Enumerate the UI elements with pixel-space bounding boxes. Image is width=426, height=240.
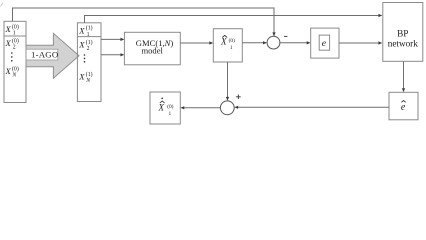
svg-text:X: X <box>78 72 85 82</box>
svg-text:(0): (0) <box>12 23 19 30</box>
wire X(1) to BP network <box>85 14 383 23</box>
svg-text:1: 1 <box>230 45 233 51</box>
wire X(1) to GMC input 2 <box>101 53 124 56</box>
wire GMC to X-hat box <box>180 41 213 44</box>
summing junction 1 <box>267 36 280 49</box>
svg-text:network: network <box>388 39 419 49</box>
svg-text:X: X <box>78 40 85 50</box>
svg-text:e: e <box>401 102 406 113</box>
svg-text:N: N <box>85 78 91 84</box>
wire e-hat to summing junction 2 <box>234 106 389 109</box>
BP network box <box>383 3 423 62</box>
svg-text:1: 1 <box>87 32 90 38</box>
svg-text:X: X <box>78 25 85 35</box>
svg-text:(1): (1) <box>86 71 93 78</box>
label X1(0) <box>5 23 19 36</box>
label XN(0) <box>5 65 19 78</box>
box X(0) separator line <box>4 35 26 37</box>
svg-text:(0): (0) <box>12 38 19 45</box>
wire X(1) to GMC input 1 <box>101 38 124 41</box>
svg-text:2: 2 <box>13 45 16 51</box>
svg-text:(1): (1) <box>86 39 93 46</box>
svg-text:(0): (0) <box>167 103 173 110</box>
output box X-hat-hat(0) <box>150 92 180 124</box>
wire junction 1 to e box <box>280 41 311 44</box>
summing junction 2 <box>220 101 234 115</box>
svg-text:(0): (0) <box>229 37 235 44</box>
wire X-hat to summing junction 1 <box>242 41 267 44</box>
vdots box X(1) <box>84 54 86 62</box>
box X(1) AGO series <box>77 23 101 102</box>
wire e box to BP network <box>339 41 382 44</box>
svg-text:e: e <box>322 38 327 49</box>
e-hat box <box>389 92 418 120</box>
box X(1) separator line <box>77 36 101 38</box>
wire BP network to e-hat box <box>402 61 405 92</box>
svg-text:X: X <box>5 24 12 34</box>
label X2(1) <box>78 39 92 52</box>
wire summing junction 2 to output box <box>180 106 220 109</box>
svg-text:1: 1 <box>169 111 172 117</box>
plus sign <box>236 95 241 100</box>
wire X-hat box down to summing junction 2 <box>226 62 229 101</box>
label XN(1) <box>78 71 92 84</box>
svg-text:1-AGO: 1-AGO <box>31 50 58 60</box>
wire X1(0) to top summing junction <box>13 8 276 36</box>
svg-text:1: 1 <box>13 31 16 37</box>
vdots box X(0) <box>11 52 13 61</box>
minus sign <box>284 35 287 37</box>
1-AGO label box <box>26 49 58 60</box>
svg-text:X: X <box>5 66 12 76</box>
1-AGO block arrow <box>26 33 79 78</box>
svg-text:BP: BP <box>397 28 408 38</box>
box X-hat(0) <box>213 29 242 62</box>
label X1(1) <box>78 25 92 38</box>
svg-text:model: model <box>141 46 163 56</box>
box X(0) input series <box>4 21 26 102</box>
label X2(0) <box>5 38 19 51</box>
svg-text:X: X <box>220 37 227 47</box>
svg-text:X: X <box>5 38 12 48</box>
artifact mark top-left <box>1 3 3 6</box>
svg-text:N: N <box>11 73 17 79</box>
svg-text:X: X <box>158 103 165 113</box>
e box outer <box>311 28 339 58</box>
svg-text:2: 2 <box>87 46 90 52</box>
GMC model box <box>124 32 180 65</box>
e box inner <box>319 35 329 50</box>
svg-text:(1): (1) <box>86 25 93 32</box>
svg-text:(0): (0) <box>12 65 19 72</box>
